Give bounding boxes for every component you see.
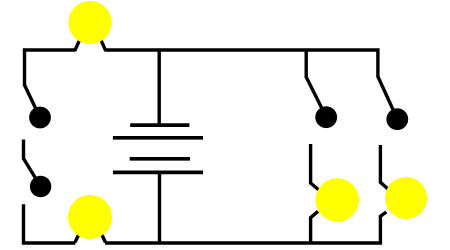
wire: battery top lead: [157, 50, 160, 125]
lamp L1: [68, 1, 111, 44]
switch S3 blade: [306, 77, 326, 117]
wire: bottom-left vertical + bottom rail left segment: [24, 204, 76, 243]
wire: lamp L4 lower lead and stub: [380, 212, 386, 243]
lamp L2: [68, 195, 112, 239]
wire: lamp L4 upper stub and lead: [380, 145, 388, 189]
switch S4 blade: [378, 77, 397, 120]
switch S2 contact dot: [30, 176, 51, 197]
battery B1: [113, 125, 203, 172]
lamp L4: [385, 177, 427, 219]
switch S2 upper stub: [22, 140, 25, 160]
wire: lamp L1 right lead: [100, 39, 106, 52]
wire: left branch vertical + top rail left segment: [25, 50, 76, 86]
wire: lamp L2 left lead: [75, 231, 80, 243]
wire: right branch 1 top vertical: [305, 50, 308, 78]
wire: lamp L3 lower lead and stub: [311, 211, 318, 243]
wire: battery bottom lead: [158, 173, 161, 243]
wire: bottom rail main segment: [105, 241, 382, 244]
wire: top rail main segment + right branch 2 vertical: [105, 50, 378, 78]
switch S3 contact dot: [315, 106, 337, 128]
lamp L3: [316, 178, 359, 221]
wire: lamp L3 upper stub and lead: [311, 144, 320, 191]
switch S2 blade: [24, 159, 41, 187]
switch S1 contact dot: [29, 107, 51, 129]
wire: lamp L1 left lead: [75, 39, 81, 52]
wire: lamp L2 right lead: [100, 231, 106, 243]
switch S1 blade: [25, 85, 41, 118]
switch S4 contact dot: [386, 108, 408, 130]
